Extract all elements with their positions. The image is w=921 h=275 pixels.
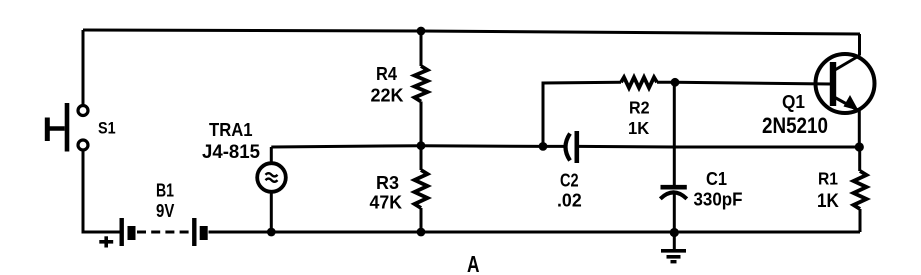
resistor R4 (415, 31, 428, 146)
svg-text:22K: 22K (371, 86, 404, 106)
svg-text:1K: 1K (817, 191, 839, 212)
svg-text:.02: .02 (557, 190, 582, 210)
svg-text:TRA1: TRA1 (209, 120, 253, 140)
capacitor C2 (566, 131, 577, 163)
wire R2 to base node (657, 81, 675, 84)
wire S1 top (82, 30, 85, 105)
svg-text:1K: 1K (628, 118, 650, 138)
svg-text:330pF: 330pF (694, 190, 743, 210)
resistor R2 (621, 77, 657, 88)
node emitter/R1 (855, 142, 864, 151)
wire top rail (83, 30, 860, 34)
wire C2 branch up and over (543, 82, 621, 146)
svg-text:S1: S1 (98, 120, 116, 138)
svg-text:J4-815: J4-815 (202, 142, 260, 163)
node TRA1 bottom junction (267, 228, 276, 237)
svg-text:R2: R2 (629, 98, 650, 118)
node bottom R3 (417, 228, 426, 237)
node mid R4/R3 (417, 141, 426, 150)
transistor Q1 (816, 34, 875, 147)
svg-text:2N5210: 2N5210 (762, 113, 828, 138)
svg-text:Q1: Q1 (782, 92, 805, 112)
node C2 branch (539, 142, 548, 151)
capacitor C1 (660, 187, 687, 232)
node base/R2/C1 (671, 78, 680, 87)
label + (99, 236, 113, 247)
switch S1 (47, 103, 88, 152)
wire S1 bottom (83, 151, 120, 233)
svg-text:R4: R4 (376, 64, 397, 84)
battery B1 (122, 218, 204, 246)
transducer TRA1 (257, 147, 286, 232)
svg-text:A: A (467, 251, 480, 275)
svg-text:B1: B1 (156, 180, 174, 200)
ground (661, 233, 686, 262)
resistor R3 (415, 146, 428, 232)
svg-text:C2: C2 (560, 171, 579, 191)
svg-text:47K: 47K (370, 193, 403, 213)
svg-text:R1: R1 (818, 169, 838, 189)
wire mid line right (579, 145, 860, 149)
svg-text:C1: C1 (706, 169, 727, 189)
svg-text:9V: 9V (156, 201, 174, 221)
svg-text:R3: R3 (376, 173, 399, 193)
wire bottom rail (209, 231, 861, 234)
wire base (675, 82, 830, 84)
node ground junction (670, 228, 679, 237)
resistor R1 (854, 147, 867, 232)
wire C1 branch down (673, 82, 676, 185)
node top rail R4 (417, 27, 426, 36)
wire mid line left (271, 146, 564, 147)
